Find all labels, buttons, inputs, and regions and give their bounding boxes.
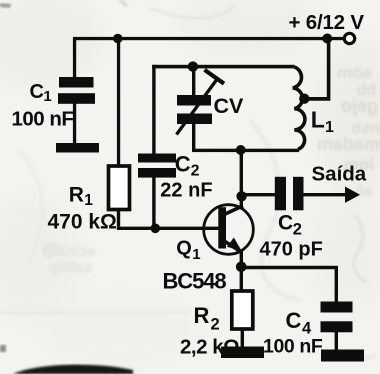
capacitor C2 (470pF) plate left <box>275 177 286 211</box>
svg-text:470 pF: 470 pF <box>260 239 323 261</box>
terminal +6/12V (open circle) <box>344 33 354 43</box>
svg-text:100 nF: 100 nF <box>263 335 323 357</box>
svg-text:gejo: gejo <box>341 96 378 116</box>
svg-text:470 kΩ: 470 kΩ <box>48 211 117 234</box>
wire: output to arrow <box>304 193 347 196</box>
node: rail-R1 junction <box>113 34 123 44</box>
capacitor C4 plate bottom <box>321 321 353 332</box>
svg-text:Saída: Saída <box>312 163 367 186</box>
svg-text:C: C <box>175 151 191 176</box>
svg-text:1: 1 <box>84 192 93 209</box>
node: base junction dot <box>151 224 161 234</box>
capacitor C1 plate bottom <box>58 93 95 104</box>
node: rail-L1 junction <box>322 34 332 44</box>
wire: C4 to ground <box>335 332 338 350</box>
capacitor C2 (22nF) plate bottom <box>138 168 176 178</box>
transistor Q1 base bar <box>218 207 226 248</box>
svg-text:2: 2 <box>293 220 302 238</box>
svg-text:Q: Q <box>176 237 192 259</box>
wire: +V top rail <box>73 37 343 40</box>
svg-text:CV: CV <box>214 94 245 118</box>
capacitor C1 plate top <box>59 77 94 88</box>
wire: to output cap <box>242 193 276 196</box>
node: emitter junction dot <box>236 262 247 273</box>
svg-text:C: C <box>278 212 293 235</box>
svg-text:dS: dS <box>42 239 60 255</box>
wire: tank top horizontal <box>152 65 295 69</box>
wire: emitter node to C4 <box>241 266 338 302</box>
wire: rail down to R1 <box>117 38 120 167</box>
wire: emitter vertical <box>240 250 243 268</box>
svg-text:L: L <box>311 106 325 132</box>
transistor Q1 emitter arrowhead <box>227 238 242 251</box>
svg-text:R: R <box>194 303 210 328</box>
transistor Q1 circle <box>204 205 254 255</box>
svg-text:1: 1 <box>325 119 334 136</box>
resistor R2 body <box>232 291 253 329</box>
trimmer CV plate top <box>177 95 211 106</box>
wire: R1 bottom to base node <box>117 208 120 227</box>
svg-text:som: som <box>337 63 372 82</box>
svg-text:1: 1 <box>43 88 51 105</box>
wire: base horizontal <box>117 227 219 230</box>
wire: C1 to ground <box>73 103 76 144</box>
node: output tap dot <box>236 191 246 201</box>
node: L1 tap dot <box>299 94 309 104</box>
svg-text:2: 2 <box>191 162 200 179</box>
svg-text:+ 6/12 V: + 6/12 V <box>289 11 365 34</box>
wire: tank left vertical (top wire to C2) <box>152 65 155 156</box>
wire: L1 tap to rail <box>304 39 330 101</box>
resistor R1 body <box>109 166 130 210</box>
svg-text:22 nF: 22 nF <box>160 179 212 201</box>
wire: collector vertical <box>240 150 243 207</box>
svg-text:C: C <box>30 81 44 103</box>
svg-text:bb: bb <box>356 82 376 99</box>
svg-text:100 nF: 100 nF <box>12 107 74 130</box>
scan smudge left edge lower <box>0 345 6 352</box>
ground bar under R2 <box>221 347 264 359</box>
svg-text:2: 2 <box>211 316 220 334</box>
page artifact: black bar bottom-left <box>13 365 133 374</box>
trimmer CV diagonal <box>177 79 218 135</box>
wire: C2 bottom to base node <box>152 177 155 229</box>
ground bar under C4 <box>321 350 364 362</box>
inductor L1 coil <box>293 67 305 149</box>
svg-text:BC548: BC548 <box>163 268 227 293</box>
wire: tank bottom horizontal <box>192 149 299 152</box>
scan smudge top-left edge <box>0 3 11 8</box>
svg-text:sahlip: sahlip <box>49 259 92 276</box>
trimmer CV plate bottom <box>177 114 212 125</box>
capacitor C2 (470pF) plate right <box>293 177 304 211</box>
svg-text:C: C <box>286 308 302 333</box>
transistor Q1 emitter stroke <box>222 240 241 253</box>
trimmer CV T-bar <box>205 70 225 84</box>
node: CV top junction <box>188 61 198 71</box>
svg-text:1: 1 <box>192 246 200 263</box>
ground bar under C1 <box>56 143 99 153</box>
capacitor C4 plate top <box>321 302 353 313</box>
trimmer CV top lead <box>192 67 195 96</box>
capacitor C2 (22nF) plate top <box>138 154 176 163</box>
output arrowhead <box>345 187 360 203</box>
wire: rail down to C1 <box>73 38 76 78</box>
wire: emitter to R2 <box>240 267 243 292</box>
wire: R2 to ground <box>241 329 244 348</box>
trimmer CV bottom lead <box>192 124 195 152</box>
node: tank bottom / collector junction <box>236 145 246 155</box>
svg-text:2,2 kΩ: 2,2 kΩ <box>180 335 239 358</box>
transistor Q1 collector stroke <box>222 206 243 216</box>
svg-text:nsb: nsb <box>351 120 380 137</box>
svg-text:madam: madam <box>317 134 380 154</box>
svg-text:R: R <box>69 183 84 206</box>
